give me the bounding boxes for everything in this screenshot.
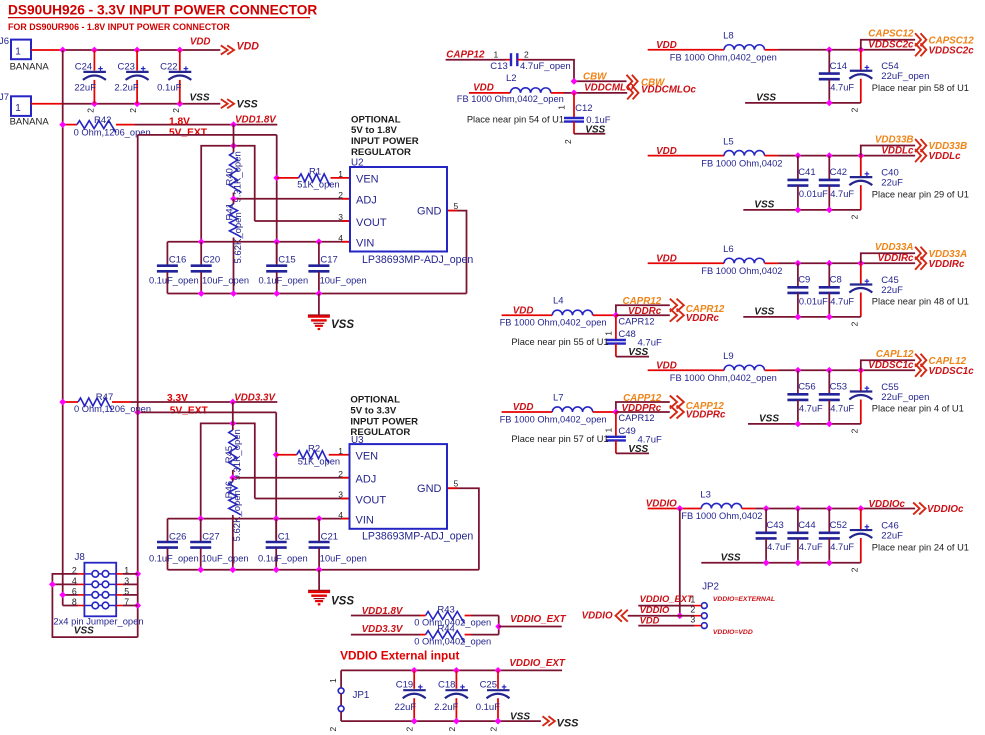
capacitor C26: [149, 519, 199, 570]
svg-text:5: 5: [454, 201, 459, 211]
svg-text:R44: R44: [437, 624, 454, 635]
svg-text:VDDIO=EXTERNAL: VDDIO=EXTERNAL: [713, 596, 775, 603]
svg-text:VSS: VSS: [74, 626, 94, 637]
svg-text:3: 3: [338, 212, 343, 222]
text place note C55: [872, 404, 964, 414]
resistor R1: [277, 167, 350, 190]
wire JP2 pin1 VDDIO_EXT: [638, 593, 694, 606]
svg-text:2: 2: [563, 139, 573, 144]
text VDDIO=EXTERNAL: [713, 596, 775, 603]
svg-text:VIN: VIN: [356, 514, 374, 526]
wire J8 right pins to 5V_EXT: [123, 574, 138, 606]
svg-text:4.7uF_open: 4.7uF_open: [520, 61, 571, 72]
svg-text:VDDIOc: VDDIOc: [927, 504, 964, 515]
inductor L2: [457, 73, 574, 104]
svg-text:5V_EXT: 5V_EXT: [169, 127, 208, 138]
svg-text:4.7uF: 4.7uF: [830, 542, 854, 552]
svg-text:LP38693MP-ADJ_open: LP38693MP-ADJ_open: [362, 531, 473, 543]
svg-text:INPUT POWER: INPUT POWER: [350, 416, 418, 427]
svg-text:VSS: VSS: [754, 307, 774, 318]
svg-text:CAPR12: CAPR12: [618, 316, 654, 326]
svg-text:2: 2: [849, 321, 859, 326]
svg-text:2: 2: [405, 727, 415, 732]
svg-text:C13: C13: [490, 61, 507, 72]
connector JP1: [328, 670, 369, 731]
node VSS output JP1: [510, 711, 579, 729]
text place near pin 54: [467, 114, 564, 124]
svg-text:OPTIONAL: OPTIONAL: [350, 395, 400, 406]
title text: [8, 3, 317, 18]
wire 5V_EXT vertical to J8: [134, 135, 141, 637]
svg-text:GND: GND: [417, 483, 442, 495]
inductor L6: [648, 244, 783, 276]
node 3.3V label: [167, 393, 209, 416]
wire C13 to CBW corner: [517, 60, 574, 82]
capacitor C9: [787, 263, 828, 317]
capacitor C48: [604, 315, 662, 356]
node VDD input of L6: [656, 254, 677, 265]
svg-text:C19: C19: [396, 680, 413, 691]
svg-text:VSS: VSS: [585, 125, 605, 136]
node VDDIOc: [869, 499, 965, 515]
node VDD input of L7: [513, 402, 534, 413]
svg-text:0.01uF: 0.01uF: [799, 189, 828, 199]
wire GND return of U3: [447, 488, 479, 570]
wire output of L5: [778, 152, 915, 159]
capacitor C23: [114, 50, 148, 113]
wire VSS rail of L9 row: [748, 414, 861, 428]
svg-text:LP38693MP-ADJ_open: LP38693MP-ADJ_open: [362, 254, 473, 266]
svg-text:VDDLc: VDDLc: [929, 151, 962, 162]
svg-text:4.7uF: 4.7uF: [830, 83, 854, 93]
svg-text:VDD: VDD: [656, 254, 677, 265]
node 1.8V label: [169, 116, 208, 138]
svg-text:0.1uF: 0.1uF: [476, 702, 500, 713]
svg-text:2: 2: [338, 469, 343, 479]
svg-text:VSS: VSS: [628, 444, 648, 455]
inductor L9: [648, 351, 778, 383]
node VDD output: [190, 37, 259, 55]
wire branch to VDD33B: [861, 146, 915, 156]
svg-text:22uF: 22uF: [395, 702, 417, 713]
svg-text:C17: C17: [320, 254, 337, 265]
svg-text:10uF_open: 10uF_open: [202, 275, 249, 285]
resistor R43: [351, 605, 499, 628]
svg-text:VSS: VSS: [331, 319, 354, 331]
svg-text:J8: J8: [75, 552, 86, 563]
svg-text:4.7uF: 4.7uF: [830, 403, 854, 413]
svg-text:CAPSC12: CAPSC12: [868, 29, 914, 40]
node VDDLc: [881, 145, 961, 162]
capacitor C20: [191, 242, 249, 294]
svg-text:VDD: VDD: [513, 305, 534, 316]
node VDD input of L5: [656, 146, 677, 157]
svg-text:VDD: VDD: [656, 361, 677, 372]
svg-text:FB 1000 Ohm,0402: FB 1000 Ohm,0402: [681, 511, 762, 521]
svg-text:C20: C20: [203, 254, 220, 265]
svg-text:1: 1: [604, 428, 614, 433]
wire J8 pin6 pin8 from bus: [59, 592, 78, 606]
svg-text:R2: R2: [308, 443, 320, 454]
svg-text:10uF_open: 10uF_open: [320, 554, 367, 564]
svg-text:2: 2: [128, 108, 138, 113]
wire J8 pin2 pin4 loop: [49, 574, 138, 637]
svg-text:1: 1: [15, 103, 21, 114]
svg-text:VSS: VSS: [189, 93, 209, 104]
node VDDPRc: [616, 403, 726, 421]
wire output of L8: [778, 46, 915, 53]
inductor L4: [500, 296, 616, 328]
wire VSS rail of L5 row: [743, 200, 861, 214]
svg-text:DS90UH926 - 3.3V INPUT POWER C: DS90UH926 - 3.3V INPUT POWER CONNECTOR: [8, 3, 317, 18]
wire VDD rail from J6: [31, 47, 220, 54]
svg-text:VDDIO: VDDIO: [646, 499, 677, 510]
wire 5V_EXT line lower: [134, 409, 276, 416]
svg-text:4.7uF: 4.7uF: [830, 296, 854, 306]
wire output of L9: [778, 367, 915, 374]
svg-text:VDD: VDD: [513, 402, 534, 413]
node VDDCMLO: [571, 83, 697, 100]
svg-text:CAPR12: CAPR12: [618, 413, 654, 423]
text VDDIO External input: [340, 648, 459, 662]
capacitor C52: [819, 509, 855, 563]
svg-text:2.2uF: 2.2uF: [434, 702, 458, 713]
svg-text:ADJ: ADJ: [356, 195, 377, 207]
svg-text:2: 2: [86, 108, 96, 113]
svg-text:4.7uF: 4.7uF: [799, 403, 823, 413]
wire branch to CAPL12: [861, 360, 915, 370]
wire divider top link U3: [201, 420, 350, 519]
svg-text:VDD: VDD: [640, 614, 660, 625]
svg-text:9.31K_open: 9.31K_open: [233, 151, 244, 202]
wire VSS rail of L3 row: [701, 553, 861, 567]
wire branch to VDD33A: [861, 253, 915, 263]
svg-text:0.1uF_open: 0.1uF_open: [149, 275, 199, 285]
capacitor C12: [557, 93, 611, 144]
ground VSS symbol of U3: [308, 570, 354, 608]
wire output of L3: [755, 505, 915, 512]
capacitor C54: [849, 50, 929, 113]
capacitor C55: [849, 370, 929, 433]
svg-text:4.7uF: 4.7uF: [767, 542, 791, 552]
svg-text:0 Ohm,1206_open: 0 Ohm,1206_open: [74, 127, 151, 137]
node VDDIO input label: [582, 610, 628, 622]
svg-text:VDDCMLOc: VDDCMLOc: [641, 85, 697, 96]
svg-text:FB 1000 Ohm,0402_open: FB 1000 Ohm,0402_open: [457, 94, 564, 104]
svg-text:VSS: VSS: [331, 595, 354, 607]
svg-text:C25: C25: [480, 680, 497, 691]
svg-text:BANANA: BANANA: [10, 61, 50, 72]
node VDD input of L8: [656, 40, 677, 51]
svg-text:OPTIONAL: OPTIONAL: [351, 114, 401, 125]
wire vertical to R1 VIN C15: [273, 135, 280, 263]
subtitle text: [8, 22, 230, 32]
svg-text:C43: C43: [766, 520, 783, 531]
capacitor C13: [490, 49, 570, 72]
svg-text:VDDLc: VDDLc: [881, 145, 914, 156]
svg-text:VEN: VEN: [356, 451, 379, 463]
svg-text:0.1uF_open: 0.1uF_open: [259, 275, 309, 285]
svg-text:VSS: VSS: [237, 99, 258, 111]
text place note C48: [511, 337, 608, 347]
svg-text:R1: R1: [309, 167, 321, 178]
svg-text:VDDIO_EXT: VDDIO_EXT: [509, 658, 566, 669]
wire 5V_EXT line: [138, 134, 277, 136]
svg-text:22uF: 22uF: [881, 530, 903, 541]
connector JP2: [690, 582, 719, 629]
svg-text:C27: C27: [202, 532, 219, 543]
svg-text:22uF: 22uF: [74, 83, 96, 94]
svg-text:VSS: VSS: [628, 347, 648, 358]
svg-text:2: 2: [171, 108, 181, 113]
svg-text:J7: J7: [0, 92, 9, 103]
svg-text:L5: L5: [723, 136, 734, 147]
svg-text:L9: L9: [723, 351, 734, 362]
capacitor C45: [849, 263, 903, 326]
svg-text:C9: C9: [798, 275, 810, 286]
svg-text:FB 1000 Ohm,0402_open: FB 1000 Ohm,0402_open: [670, 373, 777, 383]
svg-text:Place near pin 29 of U1: Place near pin 29 of U1: [872, 189, 969, 199]
svg-text:FB 1000 Ohm,0402: FB 1000 Ohm,0402: [701, 158, 782, 168]
svg-text:VDDIO_EXT: VDDIO_EXT: [640, 593, 694, 604]
svg-text:5: 5: [454, 478, 459, 488]
svg-text:0.01uF: 0.01uF: [799, 296, 828, 306]
svg-text:REGULATOR: REGULATOR: [350, 427, 410, 438]
inductor L7: [500, 392, 616, 424]
node VDD3.3V label R44: [362, 624, 404, 635]
node VSS output: [189, 93, 257, 111]
svg-text:0 Ohm,0402_open: 0 Ohm,0402_open: [414, 636, 491, 646]
node VDDSC1c: [868, 360, 974, 377]
resistor R44: [351, 624, 499, 647]
svg-text:VDDIO_EXT: VDDIO_EXT: [510, 614, 567, 625]
wire VDDIO_EXT top line JP1: [341, 658, 566, 674]
svg-text:FB 1000 Ohm,0402: FB 1000 Ohm,0402: [701, 266, 782, 276]
svg-text:C56: C56: [798, 382, 815, 393]
node VDDIO input of L3: [646, 499, 677, 510]
junction VDDIO to JP2 branch: [676, 505, 683, 512]
svg-text:VDD: VDD: [656, 146, 677, 157]
svg-text:VDDRc: VDDRc: [686, 313, 720, 324]
wire output of L6: [778, 260, 915, 267]
svg-text:1.8V: 1.8V: [169, 116, 190, 127]
node CAPR12: [623, 296, 725, 315]
svg-text:VDD33A: VDD33A: [875, 242, 914, 253]
resistor R40: [225, 125, 244, 203]
inductor L3: [648, 489, 763, 521]
svg-text:C18: C18: [438, 680, 455, 691]
svg-text:VIN: VIN: [356, 238, 374, 250]
svg-text:2: 2: [489, 727, 499, 732]
svg-text:C21: C21: [321, 532, 338, 543]
capacitor C41: [787, 156, 828, 210]
svg-text:VDD3.3V: VDD3.3V: [234, 392, 276, 403]
svg-text:VDDIO External input: VDDIO External input: [340, 648, 459, 662]
svg-text:FOR DS90UR906 - 1.8V INPUT POW: FOR DS90UR906 - 1.8V INPUT POWER CONNECT…: [8, 22, 230, 32]
capacitor C22: [157, 50, 191, 113]
svg-text:3.3V: 3.3V: [167, 393, 188, 404]
connector J8: [53, 552, 143, 637]
svg-text:FB 1000 Ohm,0402_open: FB 1000 Ohm,0402_open: [500, 318, 607, 328]
node VDD1.8V label R43: [362, 606, 404, 617]
svg-text:VSS: VSS: [510, 711, 530, 722]
capacitor C56: [787, 370, 823, 424]
svg-text:VSS: VSS: [756, 93, 776, 104]
wire divider top link: [201, 142, 350, 242]
svg-text:Place near pin 54 of U1: Place near pin 54 of U1: [467, 114, 564, 124]
capacitor C49: [604, 412, 662, 453]
svg-text:C26: C26: [169, 532, 186, 543]
svg-text:VSS: VSS: [759, 414, 779, 425]
svg-text:VDDIRc: VDDIRc: [929, 259, 965, 270]
wire JP2 pin3 VDD: [638, 614, 694, 625]
node VDD1.8V label: [235, 114, 277, 125]
svg-text:3: 3: [338, 490, 343, 500]
svg-text:1: 1: [338, 169, 343, 179]
svg-text:C41: C41: [798, 167, 815, 178]
svg-text:VOUT: VOUT: [356, 494, 387, 506]
capacitor C27: [190, 519, 248, 570]
svg-text:5V to 1.8V: 5V to 1.8V: [351, 125, 397, 136]
resistor R42: [59, 115, 150, 137]
capacitor C21: [309, 519, 367, 570]
svg-text:1: 1: [494, 49, 499, 59]
svg-text:VSS: VSS: [721, 553, 741, 564]
svg-text:1: 1: [328, 678, 338, 683]
node VDD33A: [875, 242, 967, 260]
wire VSS rail from J7: [31, 100, 220, 107]
svg-text:L7: L7: [553, 392, 564, 403]
wire VSS rail of U2: [167, 290, 466, 297]
capacitor C40: [849, 156, 903, 220]
svg-text:VDDSC1c: VDDSC1c: [929, 366, 975, 377]
svg-text:5V_EXT: 5V_EXT: [170, 405, 209, 416]
wire VDD3.3V net line: [131, 399, 277, 406]
node CAPP12 label: [446, 50, 485, 61]
svg-text:Place near pin 55 of U1: Place near pin 55 of U1: [511, 337, 608, 347]
wire vertical bus from J6 to J8: [62, 50, 64, 606]
svg-text:VDD: VDD: [237, 40, 260, 52]
svg-text:L4: L4: [553, 296, 564, 307]
svg-text:C1: C1: [278, 532, 290, 543]
text OPTIONAL regulator note U2: [351, 114, 419, 157]
regulator U3: [338, 435, 473, 543]
svg-text:VDDSC2c: VDDSC2c: [929, 45, 975, 56]
svg-text:VOUT: VOUT: [356, 217, 387, 229]
wire branch to CAPSC12: [861, 40, 915, 50]
svg-text:Place near pin 48 of U1: Place near pin 48 of U1: [872, 297, 969, 307]
text place note C40: [872, 189, 969, 199]
svg-text:R43: R43: [437, 605, 454, 616]
svg-text:Place near pin 24 of U1: Place near pin 24 of U1: [872, 542, 969, 552]
svg-text:VDDIOc: VDDIOc: [869, 499, 906, 510]
wire CAPP12 line: [446, 59, 511, 61]
ground VSS symbol of U2: [308, 294, 354, 332]
svg-text:22uF_open: 22uF_open: [881, 392, 929, 403]
node VDDSC2c: [868, 40, 974, 57]
svg-text:L3: L3: [700, 489, 711, 500]
wire ADJ to U3: [229, 474, 349, 481]
wire VIN line U3: [168, 515, 350, 522]
svg-text:VDDPRc: VDDPRc: [686, 410, 726, 421]
wire VIN line: [167, 238, 350, 245]
text OPTIONAL regulator note U3: [350, 395, 418, 439]
svg-text:2: 2: [447, 727, 457, 732]
svg-text:VDDSC1c: VDDSC1c: [868, 360, 914, 371]
svg-text:2: 2: [338, 190, 343, 200]
capacitor C46: [849, 509, 903, 573]
svg-text:2: 2: [328, 727, 338, 732]
ground VSS stub of C49: [616, 444, 649, 455]
svg-text:U2: U2: [351, 158, 364, 169]
ground VSS stub of C48: [616, 347, 649, 358]
resistor R47: [59, 392, 151, 414]
svg-text:C8: C8: [830, 275, 842, 286]
inductor L8: [648, 31, 778, 63]
svg-text:JP1: JP1: [353, 690, 370, 701]
node VDDRc: [616, 306, 720, 324]
svg-text:2x4 pin Jumper_open: 2x4 pin Jumper_open: [53, 616, 143, 627]
svg-text:2: 2: [849, 428, 859, 433]
svg-text:2: 2: [849, 107, 859, 112]
text place note C49: [511, 434, 608, 444]
wire VSS rail of L8 row: [745, 93, 861, 107]
capacitor C18: [434, 670, 468, 731]
node CBW: [571, 72, 666, 89]
svg-text:51K_open: 51K_open: [297, 180, 339, 190]
svg-text:51K_open: 51K_open: [298, 457, 340, 467]
svg-text:Place near pin 57 of U1: Place near pin 57 of U1: [511, 434, 608, 444]
svg-text:1: 1: [338, 446, 343, 456]
resistor R2: [276, 443, 349, 466]
wire branch to CAPP12: [613, 402, 670, 415]
svg-text:VDDIRc: VDDIRc: [878, 253, 914, 264]
svg-text:2.2uF: 2.2uF: [114, 83, 138, 94]
svg-text:2: 2: [849, 214, 859, 219]
svg-text:R47: R47: [96, 392, 113, 403]
wire VSS rail of L6 row: [743, 307, 861, 321]
svg-text:GND: GND: [417, 206, 442, 218]
node CAPL12: [876, 349, 967, 367]
connector J6: [0, 36, 49, 73]
node CAPP12: [623, 393, 724, 412]
svg-text:VDDCMLO: VDDCMLO: [584, 83, 634, 94]
svg-text:VDDIO=VDD: VDDIO=VDD: [713, 629, 753, 636]
text VDDIO=VDD: [713, 629, 753, 636]
svg-text:VDDIO: VDDIO: [582, 610, 613, 621]
svg-text:C14: C14: [830, 61, 847, 72]
capacitor C8: [819, 263, 855, 317]
svg-text:L6: L6: [723, 244, 734, 255]
svg-text:ADJ: ADJ: [356, 474, 377, 486]
svg-text:L2: L2: [506, 73, 517, 84]
svg-text:Place near pin 4 of U1: Place near pin 4 of U1: [872, 404, 964, 414]
node VDD label L2: [473, 82, 494, 93]
svg-text:0.1uF: 0.1uF: [157, 83, 181, 94]
capacitor C14: [819, 50, 855, 103]
svg-text:BANANA: BANANA: [10, 116, 50, 127]
svg-text:VDD: VDD: [656, 40, 677, 51]
wire GND return of U2: [447, 211, 467, 294]
svg-text:C16: C16: [169, 254, 186, 265]
node VDD33B: [875, 134, 967, 152]
svg-text:VDDSC2c: VDDSC2c: [868, 40, 914, 51]
wire vertical to R2 VIN C1: [273, 412, 280, 539]
svg-text:4.7uF: 4.7uF: [799, 542, 823, 552]
svg-text:4: 4: [338, 233, 343, 243]
capacitor C16: [149, 242, 199, 294]
svg-text:VDD3.3V: VDD3.3V: [362, 624, 404, 635]
